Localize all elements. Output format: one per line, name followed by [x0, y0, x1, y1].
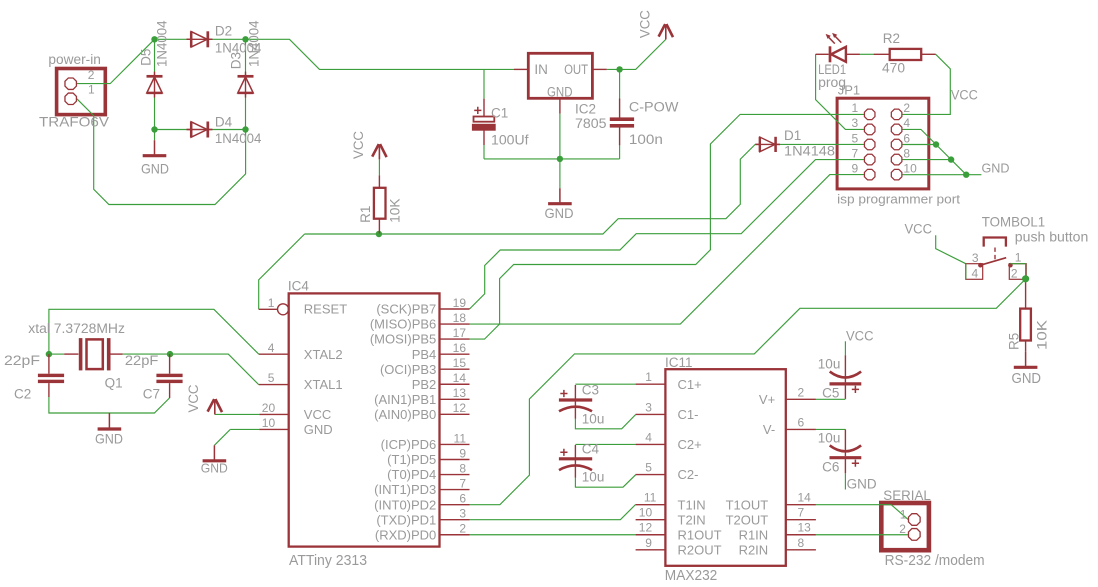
- svg-text:14: 14: [453, 371, 467, 385]
- svg-text:16: 16: [453, 341, 467, 355]
- svg-text:(INT1)PD3: (INT1)PD3: [374, 482, 436, 497]
- svg-text:4: 4: [268, 341, 275, 355]
- svg-text:GND: GND: [141, 160, 169, 176]
- svg-text:1: 1: [268, 296, 275, 310]
- svg-text:power-in: power-in: [48, 52, 101, 67]
- svg-text:(ICP)PD6: (ICP)PD6: [381, 437, 437, 452]
- svg-text:(AIN0)PB0: (AIN0)PB0: [374, 407, 436, 422]
- svg-text:6: 6: [459, 492, 466, 506]
- svg-text:push button: push button: [1015, 228, 1089, 244]
- svg-text:VCC: VCC: [637, 10, 652, 38]
- svg-text:13: 13: [798, 521, 812, 535]
- svg-text:1: 1: [1015, 251, 1022, 265]
- svg-text:2: 2: [798, 385, 805, 399]
- svg-text:3: 3: [645, 400, 652, 414]
- svg-text:C4: C4: [582, 441, 600, 456]
- svg-text:11: 11: [644, 491, 657, 505]
- svg-text:(SCK)PB7: (SCK)PB7: [376, 302, 436, 317]
- svg-text:GND: GND: [1012, 370, 1042, 387]
- svg-text:100Uf: 100Uf: [491, 133, 529, 148]
- svg-text:V-: V-: [763, 422, 775, 437]
- svg-text:VCC: VCC: [846, 329, 874, 344]
- svg-text:IC4: IC4: [288, 279, 310, 294]
- svg-text:100n: 100n: [629, 132, 663, 147]
- svg-text:2: 2: [459, 522, 466, 536]
- svg-text:D1: D1: [784, 128, 801, 143]
- svg-text:D4: D4: [215, 115, 233, 130]
- svg-text:VCC: VCC: [304, 407, 331, 422]
- svg-text:18: 18: [453, 311, 467, 325]
- svg-text:5: 5: [268, 371, 275, 385]
- svg-text:isp programmer port: isp programmer port: [837, 191, 960, 206]
- svg-text:GND: GND: [982, 160, 1010, 175]
- svg-text:T1IN: T1IN: [678, 497, 706, 512]
- svg-text:2: 2: [903, 101, 910, 115]
- svg-text:R1OUT: R1OUT: [678, 527, 722, 542]
- svg-text:10u: 10u: [582, 470, 605, 485]
- svg-text:1: 1: [900, 507, 907, 521]
- svg-text:7: 7: [798, 506, 805, 520]
- svg-text:C2-: C2-: [678, 467, 699, 482]
- svg-text:R1: R1: [358, 206, 373, 223]
- svg-text:(MISO)PB6: (MISO)PB6: [370, 317, 436, 332]
- svg-text:22pF: 22pF: [125, 353, 158, 368]
- svg-text:6: 6: [798, 415, 805, 429]
- svg-text:C3: C3: [582, 383, 599, 398]
- svg-text:1: 1: [88, 83, 95, 97]
- svg-text:7: 7: [852, 146, 859, 160]
- svg-text:ATTiny 2313: ATTiny 2313: [289, 553, 367, 569]
- svg-text:R1IN: R1IN: [739, 527, 769, 542]
- svg-text:GND: GND: [304, 422, 333, 437]
- svg-text:6: 6: [903, 131, 910, 145]
- svg-text:4: 4: [645, 430, 652, 444]
- svg-text:IN: IN: [534, 62, 548, 77]
- svg-text:D5: D5: [139, 49, 154, 66]
- svg-text:1N4004: 1N4004: [247, 20, 262, 67]
- svg-text:D3: D3: [228, 52, 243, 69]
- svg-text:GND: GND: [95, 431, 123, 447]
- svg-text:10K: 10K: [388, 198, 403, 223]
- svg-text:C2+: C2+: [678, 437, 702, 452]
- svg-text:2: 2: [1011, 266, 1018, 280]
- svg-text:GND: GND: [201, 460, 228, 475]
- svg-text:1N4148: 1N4148: [784, 144, 835, 159]
- svg-text:1N4004: 1N4004: [155, 20, 170, 67]
- svg-text:(MOSI)PB5: (MOSI)PB5: [370, 332, 436, 347]
- svg-text:R5: R5: [1007, 333, 1022, 350]
- svg-text:10: 10: [262, 416, 276, 430]
- svg-text:10u: 10u: [818, 430, 841, 445]
- svg-text:1: 1: [645, 370, 652, 384]
- svg-text:GND: GND: [545, 205, 574, 221]
- svg-text:PB4: PB4: [412, 347, 437, 362]
- svg-text:4: 4: [972, 266, 979, 280]
- svg-text:C1+: C1+: [678, 377, 702, 392]
- svg-text:2: 2: [88, 68, 95, 82]
- svg-text:17: 17: [453, 326, 467, 340]
- svg-text:R2OUT: R2OUT: [678, 543, 722, 558]
- svg-text:SERIAL: SERIAL: [883, 488, 931, 503]
- svg-text:10: 10: [639, 506, 653, 520]
- svg-text:VCC: VCC: [186, 384, 201, 412]
- svg-text:470: 470: [882, 61, 905, 76]
- svg-text:IC2: IC2: [575, 101, 596, 116]
- svg-text:R2IN: R2IN: [739, 543, 769, 558]
- svg-text:T2IN: T2IN: [678, 512, 706, 527]
- svg-text:14: 14: [798, 491, 812, 505]
- svg-text:C1: C1: [491, 106, 508, 121]
- svg-text:12: 12: [453, 401, 467, 415]
- svg-text:8: 8: [798, 536, 805, 550]
- svg-text:15: 15: [453, 356, 467, 370]
- svg-text:GND: GND: [547, 84, 573, 99]
- svg-text:8: 8: [903, 146, 910, 160]
- svg-text:R2: R2: [883, 31, 900, 46]
- svg-text:T2OUT: T2OUT: [726, 512, 769, 527]
- svg-text:(RXD)PD0: (RXD)PD0: [375, 527, 436, 542]
- svg-text:9: 9: [852, 161, 859, 175]
- svg-text:(INT0)PD2: (INT0)PD2: [374, 497, 436, 512]
- svg-text:TRAFO6V: TRAFO6V: [39, 114, 110, 130]
- svg-text:C7: C7: [143, 386, 160, 401]
- svg-text:2: 2: [899, 522, 906, 536]
- svg-text:5: 5: [852, 131, 859, 145]
- svg-text:12: 12: [639, 521, 653, 535]
- svg-text:(TXD)PD1: (TXD)PD1: [376, 512, 436, 527]
- svg-text:3: 3: [459, 507, 466, 521]
- svg-text:7: 7: [459, 476, 466, 490]
- svg-text:7805: 7805: [575, 116, 607, 131]
- svg-text:1N4004: 1N4004: [215, 131, 262, 146]
- svg-text:19: 19: [453, 296, 467, 310]
- svg-text:IC11: IC11: [665, 355, 693, 370]
- svg-text:VCC: VCC: [905, 222, 933, 237]
- svg-text:10K: 10K: [1034, 320, 1049, 350]
- svg-text:C2: C2: [14, 386, 31, 401]
- svg-text:3: 3: [972, 251, 979, 265]
- svg-text:10u: 10u: [818, 357, 841, 372]
- svg-text:JP1: JP1: [838, 83, 860, 98]
- svg-text:13: 13: [453, 386, 467, 400]
- svg-text:C5: C5: [822, 386, 839, 401]
- svg-text:(T1)PD5: (T1)PD5: [387, 452, 436, 467]
- svg-text:D2: D2: [215, 24, 232, 39]
- svg-text:1: 1: [852, 101, 859, 115]
- svg-text:22pF: 22pF: [4, 353, 40, 368]
- svg-text:(T0)PD4: (T0)PD4: [387, 467, 436, 482]
- svg-text:MAX232: MAX232: [665, 568, 718, 584]
- svg-text:4: 4: [903, 116, 910, 130]
- svg-text:Q1: Q1: [105, 376, 123, 391]
- svg-text:C1-: C1-: [678, 407, 699, 422]
- svg-text:(OCI)PB3: (OCI)PB3: [380, 362, 436, 377]
- svg-text:T1OUT: T1OUT: [726, 497, 769, 512]
- svg-text:XTAL2: XTAL2: [304, 347, 343, 362]
- svg-text:(AIN1)PB1: (AIN1)PB1: [374, 392, 436, 407]
- svg-text:11: 11: [454, 431, 467, 445]
- svg-text:VCC: VCC: [351, 131, 366, 159]
- svg-text:OUT: OUT: [564, 62, 588, 77]
- svg-text:8: 8: [459, 461, 466, 475]
- svg-text:20: 20: [262, 401, 276, 415]
- svg-text:C-POW: C-POW: [629, 100, 679, 115]
- svg-text:RS-232 /modem: RS-232 /modem: [885, 553, 985, 569]
- svg-text:GND: GND: [847, 476, 877, 491]
- svg-text:10u: 10u: [582, 411, 605, 426]
- svg-text:V+: V+: [759, 392, 775, 407]
- svg-text:TOMBOL1: TOMBOL1: [982, 213, 1046, 229]
- svg-text:XTAL1: XTAL1: [304, 377, 343, 392]
- svg-text:9: 9: [459, 446, 466, 460]
- svg-text:5: 5: [645, 461, 652, 475]
- svg-text:3: 3: [852, 116, 859, 130]
- svg-text:9: 9: [645, 536, 652, 550]
- svg-text:xtal 7.3728MHz: xtal 7.3728MHz: [28, 321, 125, 336]
- svg-text:10: 10: [903, 161, 917, 175]
- svg-text:RESET: RESET: [304, 302, 347, 317]
- svg-text:C6: C6: [822, 459, 839, 474]
- svg-text:VCC: VCC: [951, 88, 978, 103]
- svg-text:PB2: PB2: [412, 377, 437, 392]
